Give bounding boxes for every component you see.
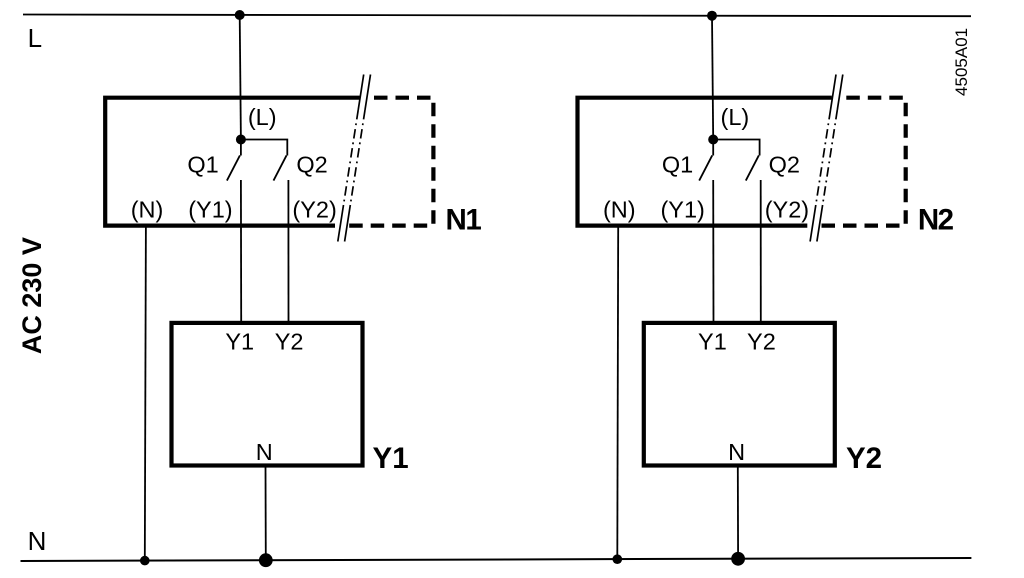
controller N2 box solid part [578, 98, 832, 226]
svg-text:Y1: Y1 [698, 329, 727, 355]
svg-text:(N): (N) [131, 196, 164, 222]
wire (N) N1 to N bus [145, 225, 146, 561]
node L junction N2 drop [707, 11, 717, 21]
node (N) N1 on N bus [140, 556, 150, 566]
node N actuator Y1 on N bus [259, 553, 273, 567]
controller N1 box solid part [105, 98, 359, 226]
break mark N2 [810, 75, 843, 242]
svg-text:Y2: Y2 [275, 329, 304, 355]
svg-text:(N): (N) [603, 196, 636, 222]
node L junction N1 drop [235, 10, 245, 20]
svg-text:N: N [728, 439, 745, 465]
svg-text:Y2: Y2 [747, 329, 776, 355]
svg-text:N2: N2 [918, 203, 954, 236]
wire Q1 to actuator Y2 [712, 180, 714, 323]
svg-text:N: N [28, 526, 47, 556]
wire N actuator Y2 to N bus [737, 466, 739, 559]
wire Q2 to actuator Y2 [760, 180, 762, 323]
wire N bus [21, 558, 972, 561]
svg-text:Y1: Y1 [373, 442, 409, 475]
actuator Y2 box [644, 323, 835, 466]
wire Q1 to actuator Y1 [240, 180, 242, 323]
svg-text:N1: N1 [446, 203, 482, 236]
svg-text:(L): (L) [248, 104, 277, 130]
svg-text:Y2: Y2 [846, 442, 882, 475]
node (L) junction N2 [708, 135, 718, 145]
switch Q2 N2 [713, 140, 759, 181]
wire (N) N2 to N bus [616, 225, 619, 560]
svg-text:4505A01: 4505A01 [952, 28, 971, 96]
svg-text:(Y2): (Y2) [765, 196, 809, 222]
svg-text:N: N [256, 439, 273, 465]
svg-text:(Y2): (Y2) [292, 196, 336, 222]
svg-text:(Y1): (Y1) [660, 196, 704, 222]
node N actuator Y2 on N bus [731, 552, 745, 566]
controller N2 box dashed continuation [820, 98, 905, 226]
wire L to (L) node N1 [240, 15, 241, 140]
wire L to (L) node N2 [712, 16, 713, 140]
wire L bus [23, 15, 971, 17]
node (N) N2 on N bus [613, 554, 623, 564]
svg-text:Q1: Q1 [187, 152, 218, 178]
svg-text:Q2: Q2 [296, 152, 327, 178]
svg-text:(Y1): (Y1) [188, 196, 232, 222]
switch Q2 N1 [241, 140, 287, 181]
switch Q1 N2 [699, 140, 713, 181]
node (L) junction N1 [236, 135, 246, 145]
controller N1 box dashed continuation [348, 98, 433, 226]
switch Q1 N1 [227, 140, 241, 181]
wire Q2 to actuator Y1 [287, 180, 289, 323]
svg-text:(L): (L) [721, 104, 750, 130]
svg-text:Q2: Q2 [769, 152, 800, 178]
break mark N1 [338, 75, 371, 242]
svg-text:Y1: Y1 [225, 329, 254, 355]
svg-text:AC 230 V: AC 230 V [17, 237, 47, 354]
wire N actuator Y1 to N bus [265, 466, 267, 561]
svg-text:Q1: Q1 [662, 152, 693, 178]
actuator Y1 box [172, 323, 363, 466]
svg-text:L: L [28, 23, 42, 53]
